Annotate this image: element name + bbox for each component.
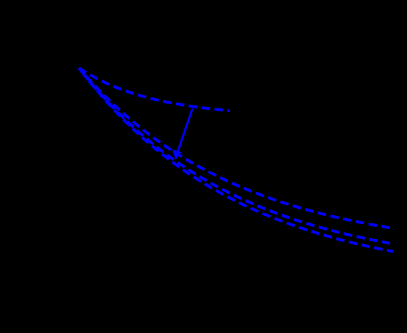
curve C (bottom of steep dashed group) [79, 68, 393, 252]
curve A (top of steep dashed group) [79, 68, 392, 228]
curve 1 (upper shallow dashed curve) [79, 68, 230, 111]
curve B (middle of steep dashed group) [79, 68, 390, 243]
arrow head [172, 149, 181, 160]
arrow shaft [178, 109, 193, 152]
